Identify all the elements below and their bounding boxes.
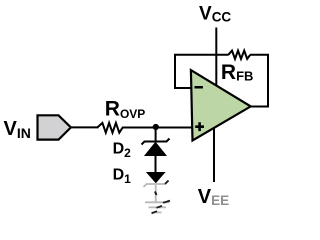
wire D2 to D1	[155, 155, 157, 172]
wire Vin to Rovp	[70, 126, 99, 128]
diode D1	[144, 173, 169, 188]
node junction dot	[153, 124, 159, 130]
op-amp U1	[191, 70, 251, 140]
zener diode D2	[142, 139, 170, 156]
wire D1 to ground	[155, 185, 157, 202]
Vee supply wire	[213, 128, 215, 182]
wire Rovp to op-amp non-inverting input	[122, 127, 193, 129]
resistor ROVP zigzag	[97, 123, 122, 133]
wire feedback right from output	[250, 55, 268, 107]
ground	[145, 201, 170, 214]
op-amp non-inverting input marker	[195, 122, 204, 131]
input terminal Vin pentagon	[38, 115, 71, 139]
op-amp inverting input marker	[195, 86, 203, 89]
wire feedback top-left to inverting input	[175, 55, 229, 88]
Vcc supply wire	[215, 28, 217, 87]
resistor RFB zigzag	[228, 51, 250, 59]
wire node down to D2	[155, 127, 157, 141]
